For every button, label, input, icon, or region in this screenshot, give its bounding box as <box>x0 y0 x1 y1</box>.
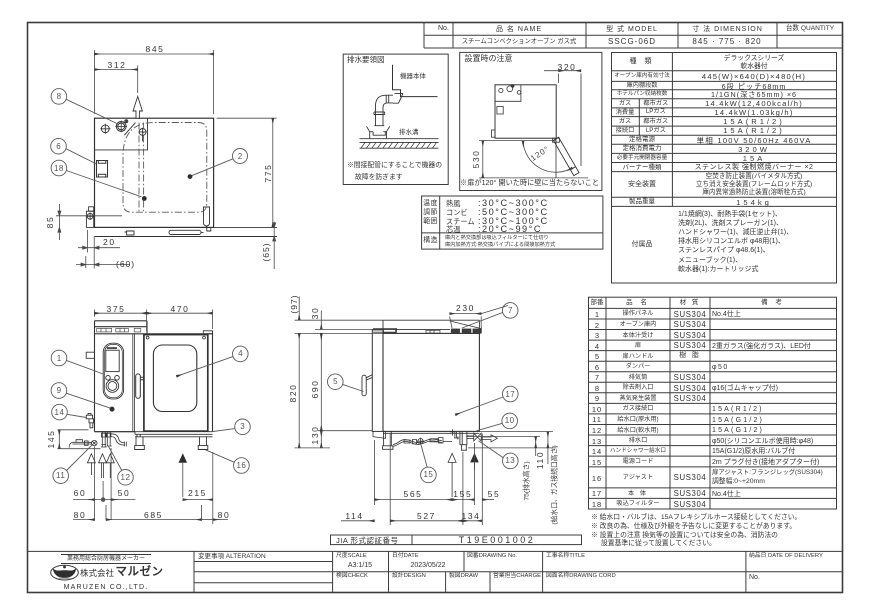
installation caution box text <box>465 55 513 63</box>
front view: left leg <box>135 437 145 450</box>
caution box: dim 320 <box>544 71 581 83</box>
front view: door top-right hinge tab <box>203 331 212 334</box>
dim 80/685/80 (front bottom row2) <box>73 505 228 520</box>
dim 130 (side) <box>320 431 322 448</box>
temperature range table text <box>423 201 438 208</box>
plan view callout numbers <box>57 93 61 101</box>
front view: door frame <box>144 335 208 432</box>
side view: exhaust stack with damper flap <box>450 321 481 333</box>
parts table text <box>591 300 604 307</box>
callout circle 13 <box>479 441 519 469</box>
callout circle 4 <box>177 346 249 376</box>
title block grid <box>28 551 844 592</box>
plan view: cavity partition dash-dot lines <box>139 123 144 213</box>
caution box 120 degree label <box>529 145 551 163</box>
dim 110 (side right) <box>468 432 557 464</box>
dim 775 (plan right) <box>217 118 277 227</box>
front view: panel black dot (callout 9 ref) <box>110 407 115 412</box>
side view: front leg <box>383 431 393 449</box>
plan view: oven body outline <box>95 118 214 227</box>
dim 60/50 (front bottom) <box>73 447 135 520</box>
callout circle 16 <box>206 450 250 474</box>
caution box: left fitting <box>492 130 496 137</box>
dim 75 (side right, drain height) <box>466 437 540 457</box>
plan view: sensor dot right <box>188 174 193 179</box>
plan view: front lower edge lines <box>95 227 278 236</box>
drainage guide: outlet pipe and elbow <box>374 93 403 125</box>
front view: door corner screws <box>146 336 205 339</box>
caution box: plan circles <box>499 85 521 95</box>
JIA certification row <box>336 537 399 545</box>
drainage guide: floor with hatching <box>360 139 439 149</box>
caution box: door swing arc 120deg <box>523 141 572 172</box>
front view: water inlet pipes <box>101 432 112 447</box>
side view: gas connection with hollow arrow <box>467 433 498 442</box>
plan view: part 6 left rectangle <box>97 161 108 178</box>
callout circle 7 <box>462 303 518 328</box>
front view: drain elbow pipe <box>111 434 127 447</box>
side view dimension labels <box>456 304 475 313</box>
side view: rear leg <box>460 432 467 450</box>
plan view: damper cylinder <box>115 119 128 132</box>
callout circle 1 <box>51 350 103 374</box>
callout circle 2 <box>192 149 248 176</box>
callout circle 10 <box>477 413 518 431</box>
side view: supply hollow arrow + gas black arrow <box>448 453 456 497</box>
plan view: door handle bar (bottom) <box>125 230 204 235</box>
front view: drain black arrow <box>179 453 188 497</box>
callout circle 3 <box>213 419 250 435</box>
front view dimension labels <box>107 305 126 314</box>
dim 230 (side top) <box>450 306 508 329</box>
dim 312 (plan top) <box>95 66 138 94</box>
front view: supply hollow arrows <box>87 454 114 478</box>
caution box: left rectangle part <box>497 107 503 115</box>
side view: under-body drain hose assembly <box>393 438 452 447</box>
dim 85 (plan left) <box>56 204 122 240</box>
front view: control panel <box>103 343 123 399</box>
plan view: left water fitting <box>86 207 93 228</box>
title block text <box>61 554 151 564</box>
spec table grid (right) <box>612 53 837 284</box>
plan view: control box partition <box>95 118 148 150</box>
dim 565/155/55 (side bottom) <box>375 434 495 525</box>
front view: door handle <box>136 374 144 398</box>
callout circle 8 <box>51 89 119 125</box>
side view: cap vent slots <box>384 329 441 333</box>
caution box: open door slab at 120 degrees <box>553 137 580 175</box>
callout circle 5 <box>328 374 364 392</box>
plan view: door hinge profile (bottom right) <box>204 207 211 231</box>
front view: gas shutoff lever <box>69 440 97 448</box>
header table text <box>438 25 449 32</box>
callout circle 11 <box>53 445 92 484</box>
plan view: interior cavity dash-dot outline <box>123 123 207 213</box>
plan view: screw head cross circle <box>100 124 110 134</box>
maruzen logo <box>51 565 79 580</box>
side view: base plinth line <box>383 432 479 434</box>
callout circle 18 <box>51 160 141 197</box>
caution box: control box partition <box>495 85 521 102</box>
front view: hand shower valve on left edge <box>86 413 93 427</box>
caution box: dim 530 <box>479 141 588 178</box>
dim (60) plan bottom left <box>76 256 130 268</box>
front view: left side tab <box>86 352 94 358</box>
plan view dimension labels <box>146 45 165 54</box>
side view: top cap <box>383 320 479 333</box>
dim (97) side <box>295 297 384 321</box>
callout circle 6 <box>51 138 97 164</box>
notes under parts table <box>591 515 801 522</box>
installation caution box <box>460 52 602 190</box>
dim 375 (front top) <box>95 310 213 332</box>
callout circle 9 <box>51 383 110 408</box>
dim 845 (plan top) <box>95 50 214 114</box>
header table grid (top right) <box>424 23 843 49</box>
dim 145 (front lower left) <box>57 430 100 449</box>
drainage guide box <box>343 54 448 184</box>
front view: right leg <box>198 437 208 450</box>
front view callout numbers <box>57 355 61 363</box>
side view: drain pipe to floor <box>458 437 459 440</box>
callout circle 12 <box>108 446 133 485</box>
caution box: oven plan body <box>495 85 556 138</box>
spec table text <box>630 58 655 65</box>
side view: body outline <box>383 333 479 431</box>
drainage guide: floor drain funnel <box>367 126 390 138</box>
plan view: exhaust direction hollow arrow <box>133 97 142 119</box>
dim 215 (front bottom) <box>183 452 213 524</box>
JIA certification number box <box>331 535 582 545</box>
dim 114/527/134 (side bottom row2) <box>341 434 482 525</box>
plan view: small port circle <box>138 128 146 142</box>
side view: door slab <box>372 329 396 439</box>
drainage guide: machine body corner <box>393 65 438 97</box>
dim 820 (side) <box>295 333 331 448</box>
front view: body outline <box>95 321 213 432</box>
caution box: wall reference lines <box>556 74 581 179</box>
dim 30 (side) <box>295 311 384 340</box>
dim 690 (side) <box>318 333 372 430</box>
parts table grid (lower right) <box>589 297 837 509</box>
side view: water inlet fittings <box>450 429 457 438</box>
dim 20 (plan bottom left) <box>78 230 120 269</box>
front view: top vent slots <box>97 328 141 332</box>
callout circle 14 <box>52 404 87 420</box>
front view: panel fascia right edge <box>133 334 135 432</box>
dim (65) plan right <box>273 222 276 269</box>
callout circle 15 <box>421 445 437 483</box>
plan view: sensor dot left <box>142 196 147 201</box>
callout circle 17 <box>455 386 518 415</box>
drainage guide box text <box>347 56 385 64</box>
side view: door handle profile <box>362 375 372 396</box>
side view callout numbers <box>508 307 512 315</box>
dim 470 (front top) <box>147 312 213 314</box>
front view: base plinth <box>95 432 213 437</box>
temperature range table grid <box>422 196 603 249</box>
front view: door window <box>153 345 196 412</box>
